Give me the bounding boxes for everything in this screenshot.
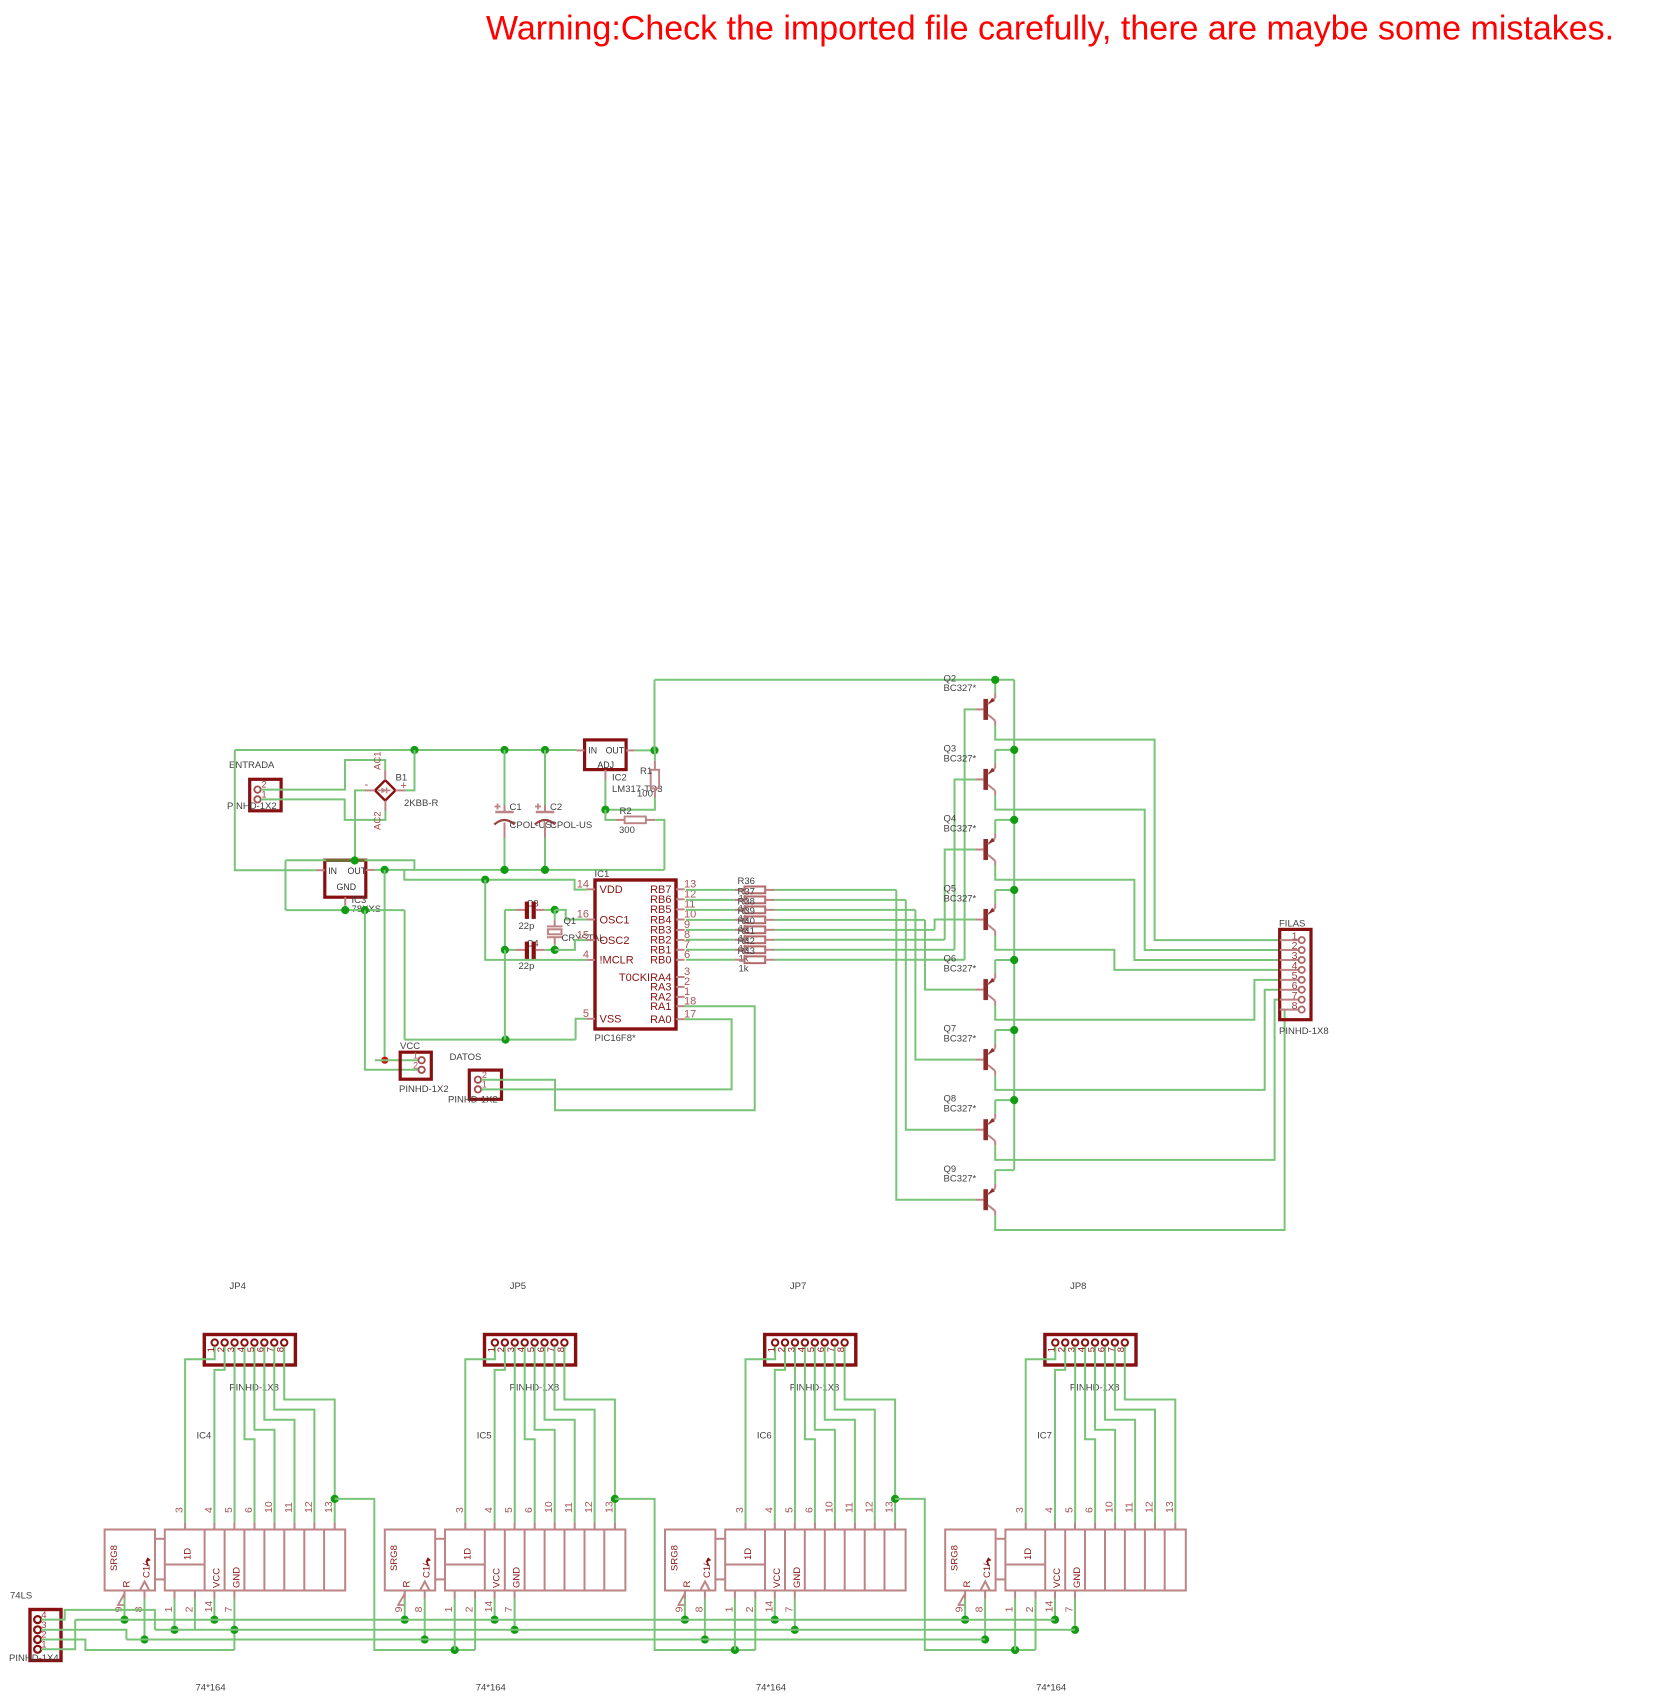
connector ENTRADA PINHD-1X2	[227, 760, 281, 812]
node junction IC6 serial out tap	[891, 1495, 899, 1503]
wire ENTRADA pin2 to B1 AC1	[261, 760, 385, 790]
wire JP7 pin7 to IC6 pin	[835, 1347, 875, 1523]
node junction C2 bottom	[541, 866, 549, 874]
pin 17 RA0	[650, 1008, 696, 1026]
wire R2 right to VDD rail	[655, 820, 664, 870]
svg-text:VDD: VDD	[600, 884, 623, 896]
pin 16 OSC1	[577, 909, 630, 927]
wire IC6 pin8 to bus	[704, 1599, 706, 1640]
wire cascade IC6 to next stage	[895, 1499, 1035, 1650]
svg-text:14: 14	[763, 1601, 775, 1613]
wire Q5 emitter to FILAS pin 4	[995, 936, 1279, 970]
node junction next stage data input	[1011, 1646, 1019, 1654]
transistor Q3 BC327	[944, 743, 996, 795]
wire crystal node to OSC1	[555, 910, 587, 920]
svg-text:11: 11	[283, 1502, 295, 1513]
wire Q9 emitter to FILAS pin 8	[995, 1010, 1284, 1230]
svg-text:12: 12	[583, 1501, 595, 1513]
svg-text:2: 2	[464, 1606, 476, 1612]
svg-text:DATOS: DATOS	[450, 1052, 482, 1063]
node junction IC6 pin9	[681, 1616, 689, 1624]
wire IC7 pin2 riser	[1035, 1599, 1037, 1651]
svg-text:4: 4	[1044, 1507, 1056, 1513]
svg-text:8: 8	[413, 1606, 425, 1612]
svg-text:12: 12	[863, 1501, 875, 1513]
wire collector trunk vertical	[1013, 680, 1015, 1170]
resistor R37 1k row RB6	[686, 896, 775, 903]
svg-text:IC5: IC5	[477, 1431, 492, 1442]
node junction crystal bottom OSC2	[551, 946, 559, 954]
svg-text:15: 15	[577, 929, 589, 941]
wire JP4 pin2 to IC4 pin	[214, 1347, 224, 1523]
svg-text:B1: B1	[396, 773, 408, 784]
svg-text:2: 2	[482, 1070, 487, 1080]
node junction next stage data input	[731, 1646, 739, 1654]
wire VSS horizontal	[405, 1039, 576, 1041]
svg-text:14: 14	[1044, 1601, 1056, 1613]
pin 7 RB1	[650, 939, 690, 957]
wire JP5 pin1 to IC5 pin	[465, 1347, 495, 1523]
wire crystal bottom to C4 node	[554, 944, 556, 950]
wire PINHD pin4 to data bus	[41, 1610, 155, 1630]
wire C3 right to crystal top	[545, 909, 555, 911]
wire IC6 pin1 riser	[734, 1599, 736, 1651]
wire JP5 pin8 to IC5 pin	[564, 1347, 614, 1523]
svg-text:SRG8: SRG8	[109, 1545, 120, 1571]
wire R1 bottom to ADJ node	[605, 798, 655, 810]
svg-text:R: R	[682, 1581, 693, 1588]
svg-text:2: 2	[413, 1060, 418, 1070]
wire upper VDD rail	[286, 860, 415, 870]
wire bus1 horizontal	[75, 1619, 1055, 1621]
node junction IC5 pin8	[421, 1635, 429, 1643]
svg-text:1: 1	[723, 1606, 735, 1612]
svg-text:JP4: JP4	[230, 1281, 246, 1292]
svg-text:BC327*: BC327*	[944, 683, 977, 694]
pin 11 RB5	[650, 899, 695, 917]
transistor Q6 BC327	[944, 954, 996, 1006]
capacitor C3 22p	[505, 899, 545, 933]
svg-text:1D: 1D	[743, 1548, 754, 1560]
wire Q3 collector to trunk	[994, 750, 996, 764]
svg-text:R: R	[402, 1581, 413, 1588]
svg-text:9: 9	[393, 1606, 405, 1612]
node junction Q6 collector trunk	[1010, 956, 1018, 964]
svg-text:74*164: 74*164	[476, 1683, 506, 1694]
pin 13 RB7	[650, 879, 696, 897]
wire VCC branch vertical	[384, 870, 386, 1060]
wire PINHD pin1 to reset bus	[41, 1620, 75, 1650]
wire JP8 pin8 to IC7 pin	[1125, 1347, 1175, 1523]
pin 5 VSS	[583, 1008, 622, 1026]
shift register IC4 74*164	[105, 1501, 346, 1612]
wire IC3 GND stub join	[344, 905, 346, 910]
wire JP4 pin1 to IC4 pin	[185, 1347, 215, 1523]
svg-text:4: 4	[763, 1507, 775, 1513]
node junction IC5 pin14	[491, 1616, 499, 1624]
svg-text:GND: GND	[337, 882, 357, 892]
svg-text:1: 1	[413, 1051, 418, 1061]
wire IC7 pin7 riser	[1074, 1599, 1076, 1630]
svg-text:74*164: 74*164	[756, 1683, 786, 1694]
wire IC4 pin9 to bus	[124, 1599, 126, 1620]
wire R43 to transistor base riser	[775, 959, 965, 961]
svg-text:BC327*: BC327*	[944, 823, 977, 834]
wire crystal node to OSC2	[555, 940, 587, 950]
wire JP8 pin2 to IC7 pin	[1055, 1347, 1065, 1523]
wire IC5 pin7 riser	[514, 1599, 516, 1630]
wire C3 left down to C4	[504, 910, 506, 950]
wire JP7 pin5 to IC6 pin	[815, 1347, 835, 1523]
wire JP5 pin5 to IC5 pin	[535, 1347, 555, 1523]
resistor R40 1k row RB3	[686, 926, 775, 933]
svg-text:300: 300	[619, 825, 635, 836]
svg-text:12: 12	[1144, 1501, 1156, 1513]
wire cascade IC5 to next stage	[615, 1499, 755, 1650]
svg-text:2KBB-R: 2KBB-R	[404, 798, 438, 809]
wire IC6 pin7 riser	[794, 1599, 796, 1630]
node junction C3 crystal OSC1	[551, 906, 559, 914]
node red junction VCC pin1	[381, 1057, 388, 1064]
svg-text:VCC: VCC	[212, 1568, 223, 1588]
wire PINHD pin2 to ground link	[41, 1640, 234, 1651]
svg-text:4: 4	[203, 1507, 215, 1513]
wire IC5 pin14 to bus	[494, 1599, 496, 1620]
svg-text:SRG8: SRG8	[950, 1545, 961, 1571]
pin 1 RA2	[650, 986, 690, 1004]
node junction IC3 GND	[341, 906, 349, 914]
svg-text:RA1: RA1	[650, 1001, 671, 1013]
svg-text:18: 18	[684, 995, 696, 1007]
svg-text:C1: C1	[510, 802, 522, 813]
node junction Q4 collector trunk	[1010, 816, 1018, 824]
capacitor C2 CPOL-US	[535, 750, 592, 870]
svg-text:IC6: IC6	[757, 1431, 772, 1442]
resistor R2 300	[605, 806, 655, 836]
wire IC7 pin1 riser	[1014, 1599, 1016, 1651]
pin 9 RB3	[650, 919, 690, 937]
node junction Q2 collector	[991, 676, 999, 684]
wire JP4 pin7 to IC4 pin	[274, 1347, 314, 1523]
wire IC4 pin1 riser	[174, 1599, 176, 1630]
transistor Q7 BC327	[944, 1024, 996, 1076]
svg-text:1: 1	[163, 1606, 175, 1612]
node junction top rail at B1+	[410, 746, 418, 754]
wire JP8 pin5 to IC7 pin	[1095, 1347, 1115, 1523]
wire Q6 emitter to FILAS pin 5	[995, 980, 1279, 1020]
svg-text:4: 4	[483, 1507, 495, 1513]
svg-text:5: 5	[1064, 1507, 1076, 1513]
svg-text:R2: R2	[620, 806, 632, 817]
transistor Q9 BC327	[944, 1164, 996, 1216]
wire Q4 collector to trunk	[994, 820, 996, 834]
resistor R39 1k row RB4	[686, 916, 775, 923]
svg-text:8: 8	[1116, 1347, 1127, 1352]
svg-text:!MCLR: !MCLR	[600, 955, 634, 967]
svg-text:13: 13	[603, 1501, 615, 1513]
wire Q2 collector to trunk	[994, 680, 996, 694]
transistor Q4 BC327	[944, 814, 996, 866]
wire R36 to transistor base riser	[775, 889, 897, 891]
shift register IC5 74*164	[385, 1501, 626, 1612]
node junction Q5 collector trunk	[1010, 886, 1018, 894]
svg-text:VCC: VCC	[1052, 1568, 1063, 1588]
svg-text:5: 5	[503, 1507, 515, 1513]
wire ENTRADA loop to IC3 IN	[235, 750, 316, 870]
wire bus3 horizontal	[126, 1639, 985, 1641]
svg-text:SRG8: SRG8	[389, 1545, 400, 1571]
svg-text:11: 11	[1124, 1502, 1136, 1513]
shift register IC7 74*164	[945, 1501, 1186, 1612]
node junction IC5 pin7	[510, 1626, 518, 1634]
wire supply node up to transistor rail	[654, 680, 656, 751]
wire R38 to transistor base riser	[775, 909, 916, 911]
node junction C4 left	[501, 946, 509, 954]
svg-text:IN: IN	[328, 866, 337, 876]
wire IC4 pin7 riser	[233, 1599, 235, 1651]
wire Q8 base from R37	[906, 900, 976, 1130]
svg-text:IC2: IC2	[612, 773, 627, 784]
pin 12 RB6	[650, 889, 696, 907]
wire VDD rail left down to GND rail	[285, 861, 287, 911]
node junction IC4 pin1	[170, 1626, 178, 1634]
svg-text:OSC1: OSC1	[600, 914, 630, 926]
wire Q6 base from R39	[925, 920, 975, 990]
wire JP7 pin6 to IC6 pin	[825, 1347, 855, 1523]
resistor R41 1k row RB2	[686, 936, 775, 943]
node junction Q7 collector trunk	[1010, 1026, 1018, 1034]
node junction GND to VCC pin2 branch	[361, 906, 369, 914]
node junction IC7 pin9	[961, 1616, 969, 1624]
wire R40 to transistor base riser	[775, 929, 935, 931]
wire JP7 pin2 to IC6 pin	[775, 1347, 785, 1523]
svg-text:BC327*: BC327*	[944, 893, 977, 904]
node junction VDD MCLR branch	[481, 876, 489, 884]
node junction IC7 pin14	[1051, 1616, 1059, 1624]
wire Q7 collector to trunk	[994, 1030, 996, 1044]
svg-text:BC327*: BC327*	[944, 1104, 977, 1115]
wire IC6 pin2 riser	[754, 1599, 756, 1651]
wire GND rail down to VSS wire	[404, 910, 406, 1040]
svg-text:1D: 1D	[1023, 1548, 1034, 1560]
wire Q3 base from R42	[955, 779, 976, 949]
node junction IC7 pin8	[981, 1635, 989, 1643]
node junction IC4 pin14	[210, 1616, 218, 1624]
node junction IC4 pin9	[120, 1616, 128, 1624]
wire JP8 pin6 to IC7 pin	[1105, 1347, 1135, 1523]
svg-text:PINHD-1X2: PINHD-1X2	[399, 1084, 449, 1095]
svg-text:4: 4	[583, 949, 589, 961]
svg-text:8: 8	[974, 1606, 986, 1612]
pin 6 RB0	[650, 949, 690, 967]
svg-text:1: 1	[1004, 1606, 1016, 1612]
wire IC7 pin8 to bus	[984, 1599, 986, 1640]
node junction IC6 pin14	[771, 1616, 779, 1624]
wire Q2 emitter to FILAS pin 1	[995, 725, 1279, 940]
transistor Q5 BC327	[944, 884, 996, 936]
pin numbers of JP5	[486, 1347, 567, 1352]
svg-text:RA0: RA0	[650, 1014, 671, 1026]
svg-text:14: 14	[577, 879, 589, 891]
wire JP4 pin6 to IC4 pin	[264, 1347, 294, 1523]
wire JP8 pin4 to IC7 pin	[1085, 1347, 1095, 1523]
wire cascade IC4 to next stage	[335, 1499, 475, 1650]
wire MCLR pull-up	[485, 880, 586, 960]
svg-text:GND: GND	[1072, 1567, 1083, 1588]
wire Q4 base from R41	[945, 850, 976, 940]
wire Q7 emitter to FILAS pin 6	[995, 990, 1279, 1090]
svg-text:IN: IN	[588, 746, 597, 756]
node junction top rail at C2	[541, 746, 549, 754]
svg-text:5: 5	[223, 1507, 235, 1513]
regulator IC2 LM317	[577, 740, 663, 795]
connector VCC PINHD-1X2	[399, 1041, 449, 1095]
wire C4 vertical to VSS	[504, 950, 506, 1040]
svg-text:Warning:Check the imported fil: Warning:Check the imported file carefull…	[486, 10, 1614, 48]
svg-text:12: 12	[303, 1501, 315, 1513]
wire JP8 pin3 to IC7 pin	[1074, 1347, 1076, 1523]
svg-text:BC327*: BC327*	[944, 1033, 977, 1044]
node junction IC7 pin7	[1071, 1626, 1079, 1634]
wire top supply rail	[235, 749, 577, 751]
svg-text:PINHD-1X2: PINHD-1X2	[448, 1095, 498, 1106]
pin 14 VDD	[577, 879, 623, 897]
svg-text:6: 6	[523, 1507, 535, 1513]
wire C4 right to crystal bottom	[545, 949, 555, 951]
wire IC6 pin14 to bus	[774, 1599, 776, 1620]
svg-text:7: 7	[503, 1606, 515, 1612]
svg-text:2: 2	[262, 780, 267, 790]
node junction OUT rail VCC branch	[381, 866, 389, 874]
node junction top rail at C1	[500, 746, 508, 754]
wire Q8 emitter to FILAS pin 7	[995, 1000, 1279, 1160]
svg-text:13: 13	[323, 1501, 335, 1513]
pin numbers of JP8	[1047, 1347, 1128, 1352]
svg-text:VSS: VSS	[600, 1014, 622, 1026]
svg-text:GND: GND	[232, 1567, 243, 1588]
connector FILAS PINHD-1X8	[1279, 919, 1329, 1038]
node junction Q3 collector trunk	[1010, 746, 1018, 754]
wire IC7 pin9 to bus	[964, 1599, 966, 1620]
node junction VSS crystal ground	[501, 1036, 509, 1044]
pin 3 T0CKIRA4	[619, 966, 690, 984]
wire IC2 OUT to supply node	[635, 749, 655, 751]
connector JP5 PINHD-1X8	[485, 1335, 576, 1366]
svg-text:GND: GND	[512, 1567, 523, 1588]
connector JP8 PINHD-1X8	[1045, 1335, 1136, 1366]
wire PINHD pin3 to clock bus	[41, 1630, 126, 1640]
wire B1 plus to top rail	[405, 750, 414, 790]
capacitor C4 22p	[505, 939, 545, 973]
svg-text:VCC: VCC	[772, 1568, 783, 1588]
node junction C1 bottom	[500, 866, 508, 874]
svg-text:11: 11	[563, 1502, 575, 1513]
svg-text:14: 14	[483, 1601, 495, 1613]
svg-text:8: 8	[693, 1606, 705, 1612]
svg-text:16: 16	[577, 909, 589, 921]
wire JP8 pin1 to IC7 pin	[1026, 1347, 1056, 1523]
svg-text:R: R	[122, 1581, 133, 1588]
svg-text:7: 7	[223, 1606, 235, 1612]
wire IC5 pin8 to bus	[424, 1599, 426, 1640]
node junction IC4 pin8	[140, 1635, 148, 1643]
svg-text:2: 2	[183, 1606, 195, 1612]
node junction next stage data input	[451, 1646, 459, 1654]
wire JP5 pin7 to IC5 pin	[554, 1347, 594, 1523]
wire R39 to transistor base riser	[775, 919, 925, 921]
resistor R36 1k row RB7	[686, 887, 775, 894]
svg-text:BC327*: BC327*	[944, 963, 977, 974]
svg-text:14: 14	[203, 1601, 215, 1613]
pin 15 OSC2	[577, 929, 630, 947]
svg-text:1: 1	[482, 1080, 487, 1090]
resistor R1 100	[637, 750, 659, 799]
svg-text:R1: R1	[640, 766, 652, 777]
shift register IC6 74*164	[665, 1501, 906, 1612]
svg-text:6: 6	[803, 1507, 815, 1513]
svg-text:BC327*: BC327*	[944, 1174, 977, 1185]
svg-text:5: 5	[783, 1507, 795, 1513]
capacitor C1 CPOL-US	[494, 750, 551, 870]
wire GND horizontal rail	[286, 909, 405, 911]
svg-text:JP8: JP8	[1070, 1281, 1086, 1292]
wire IC5 pin1 riser	[454, 1599, 456, 1651]
svg-text:OUT: OUT	[348, 866, 367, 876]
svg-text:Q1: Q1	[564, 916, 577, 927]
regulator IC3 78XXS	[316, 860, 381, 915]
svg-text:AC2: AC2	[373, 812, 384, 830]
connector PINHD-1X4	[30, 1610, 61, 1661]
svg-text:10: 10	[823, 1501, 835, 1513]
svg-text:74LS: 74LS	[10, 1591, 32, 1602]
svg-text:R: R	[962, 1581, 973, 1588]
wire IC3 OUT rail to R2	[375, 869, 665, 871]
svg-text:IC7: IC7	[1037, 1431, 1052, 1442]
wire JP5 pin2 to IC5 pin	[495, 1347, 505, 1523]
svg-text:PINHD-1X4: PINHD-1X4	[9, 1653, 59, 1664]
wire Q5 collector to trunk	[994, 890, 996, 904]
svg-text:6: 6	[243, 1507, 255, 1513]
svg-text:9: 9	[954, 1606, 966, 1612]
svg-text:RB0: RB0	[650, 955, 671, 967]
transistor Q2 BC327	[944, 673, 996, 725]
wire JP4 pin4 to IC4 pin	[244, 1347, 254, 1523]
wire IC3 OUT to PIC VDD	[404, 870, 586, 890]
bridge rectifier B1 2KBB-R	[365, 752, 439, 830]
svg-text:10: 10	[263, 1501, 275, 1513]
wire JP4 pin8 to IC4 pin	[284, 1347, 334, 1523]
transistor Q8 BC327	[944, 1094, 996, 1146]
svg-text:9: 9	[673, 1606, 685, 1612]
node junction Q8 collector trunk	[1010, 1096, 1018, 1104]
svg-text:3: 3	[1014, 1507, 1026, 1513]
svg-text:74*164: 74*164	[1036, 1683, 1066, 1694]
wire Q9 collector to trunk	[994, 1170, 996, 1184]
node junction IC5 serial out tap	[611, 1495, 619, 1503]
wire JP4 pin5 to IC4 pin	[254, 1347, 274, 1523]
pin 4 !MCLR	[583, 949, 634, 967]
wire Q2 base from R43	[965, 709, 976, 959]
wire Q6 collector to trunk	[994, 960, 996, 974]
svg-text:8: 8	[836, 1347, 847, 1352]
svg-text:1: 1	[262, 789, 267, 799]
svg-text:3: 3	[734, 1507, 746, 1513]
wire IC4 pin2 riser	[194, 1599, 196, 1630]
pin 18 RA1	[650, 995, 696, 1013]
svg-text:GND: GND	[792, 1567, 803, 1588]
svg-text:7: 7	[1064, 1606, 1076, 1612]
node junction IC4 pin7	[230, 1626, 238, 1634]
